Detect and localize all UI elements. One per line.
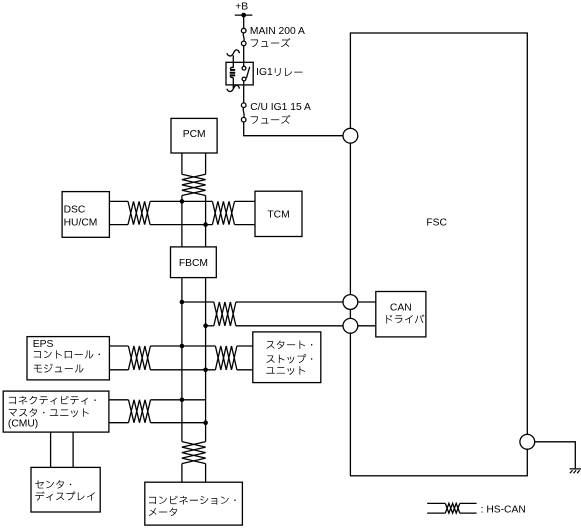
box EPS control module xyxy=(27,337,109,380)
fuse C/U IG1 15A xyxy=(241,103,246,108)
twisted pair start-stop side xyxy=(215,346,237,370)
svg-text:DSC: DSC xyxy=(64,204,86,215)
wire bus lower left xyxy=(181,278,183,442)
wire CAN-H DSC to TCM xyxy=(109,200,128,202)
twisted pair bus to combination meter xyxy=(182,442,206,464)
twisted pair bus to CAN driver xyxy=(214,302,236,326)
wire CAN-H EPS to start-stop xyxy=(109,345,128,347)
wire relay to fuse F2 xyxy=(243,81,245,103)
twisted pair PCM to bus xyxy=(182,174,206,195)
junction dot CMU CAN-L on right bus xyxy=(203,420,208,425)
ground symbol xyxy=(570,469,581,473)
connector circle ground on FSC right edge xyxy=(520,434,535,449)
junction dot DSC CAN-H on left bus xyxy=(180,199,185,204)
connector circle CAN-H on FSC xyxy=(343,295,358,310)
twisted pair TCM side xyxy=(212,201,234,224)
connector circle power input on FSC xyxy=(343,128,358,143)
box CAN driver xyxy=(376,292,426,337)
junction dot CAN-H on left bus xyxy=(180,300,185,305)
wire CMU CAN-H to bus xyxy=(109,399,129,401)
fuse MAIN 200A xyxy=(241,28,246,33)
wire CAN-L EPS to start-stop xyxy=(109,369,128,371)
svg-text:TCM: TCM xyxy=(267,210,289,221)
svg-text:FSC: FSC xyxy=(426,218,447,229)
wire bus lower right xyxy=(205,278,207,442)
box FSC xyxy=(350,33,527,476)
relay coil winding xyxy=(230,62,233,85)
wire +B down to fuse F1 xyxy=(243,15,245,28)
box FBCM xyxy=(171,247,217,278)
box TCM xyxy=(255,191,302,236)
svg-text:EPS: EPS xyxy=(33,339,54,350)
svg-text:: HS-CAN: : HS-CAN xyxy=(481,504,526,515)
wire coil continuation squiggle bottom xyxy=(227,85,240,92)
junction dot EPS CAN-H on left bus xyxy=(180,344,185,349)
wire connector to CAN driver pin1 xyxy=(358,301,376,303)
box PCM xyxy=(171,118,217,153)
wire PCM stub right xyxy=(205,153,207,174)
svg-text:FBCM: FBCM xyxy=(179,258,208,269)
wire fuse F1 to relay coil/switch xyxy=(243,46,245,67)
junction dot start-stop CAN-L on right bus xyxy=(203,368,208,373)
connector circle CAN-L on FSC xyxy=(343,318,358,333)
wire CMU CAN-L to bus xyxy=(109,422,129,424)
svg-text:CAN: CAN xyxy=(390,303,412,314)
svg-text:IG1: IG1 xyxy=(256,67,273,78)
wire CAN-L DSC to TCM xyxy=(109,224,128,226)
wire fuse F2 to FSC power connector xyxy=(244,122,343,136)
svg-text:MAIN 200 A: MAIN 200 A xyxy=(250,26,305,37)
box start-stop unit xyxy=(253,332,321,383)
box DSC HU/CM xyxy=(62,192,109,238)
relay switch contact bottom xyxy=(242,77,246,81)
box combination meter xyxy=(145,482,243,525)
wire connector to CAN driver pin2 xyxy=(358,325,376,327)
svg-text:+B: +B xyxy=(235,1,248,12)
wire CMU to center display left xyxy=(50,432,52,467)
relay switch contact top xyxy=(242,66,246,70)
box CMU connectivity master unit xyxy=(3,391,109,432)
wire CAN-H bus to FSC connector xyxy=(182,301,214,303)
wire CAN-L bus to FSC connector xyxy=(206,325,214,327)
twisted pair EPS side xyxy=(128,346,150,370)
twisted pair CMU to bus xyxy=(129,400,151,423)
svg-text:C/U IG1 15 A: C/U IG1 15 A xyxy=(250,102,311,113)
svg-text:HU/CM: HU/CM xyxy=(64,218,98,229)
wire bus upper right xyxy=(205,196,207,247)
junction dot TCM CAN-L on right bus xyxy=(203,222,208,227)
svg-text:(CMU): (CMU) xyxy=(8,418,38,429)
wire meter stub right xyxy=(205,464,207,483)
wire bus upper left xyxy=(181,196,183,247)
wire PCM stub left xyxy=(181,153,183,174)
relay switch blade xyxy=(246,67,249,78)
wire meter stub left xyxy=(181,464,183,483)
relay IG1 box xyxy=(226,62,253,85)
wire CMU to center display right xyxy=(72,432,74,467)
legend twisted pair symbol xyxy=(427,502,445,504)
wire FSC to chassis ground xyxy=(535,442,576,469)
svg-text:PCM: PCM xyxy=(183,129,206,140)
box center display xyxy=(31,467,100,512)
junction dot CAN-L on right bus xyxy=(203,324,208,329)
wire coil continuation squiggle top xyxy=(227,50,240,62)
junction dot CMU CAN-H on left bus xyxy=(180,398,185,403)
twisted pair DSC side xyxy=(128,201,150,224)
